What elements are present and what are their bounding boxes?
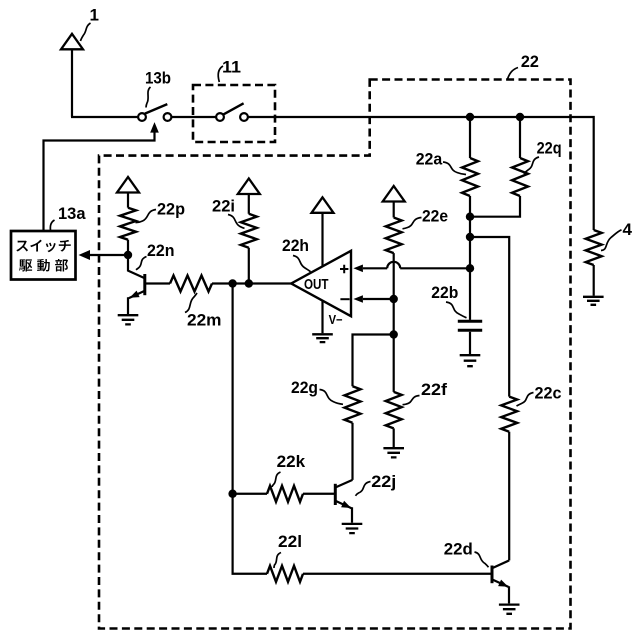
- svg-text:V−: V−: [329, 313, 343, 327]
- arrow up at switch 13b: [150, 122, 159, 133]
- wire op-amp V- to ground: [321, 301, 323, 334]
- resistor 22f: [386, 392, 402, 429]
- wire resistor 22k to 22j base: [303, 493, 335, 495]
- resistor 22q: [512, 158, 528, 196]
- switch 11 blade: [223, 103, 243, 114]
- ground below 22j: [342, 524, 363, 533]
- switch 13b blade: [145, 104, 167, 114]
- leader for label 1: [81, 23, 91, 41]
- junction dot node 22e-minus: [390, 295, 398, 303]
- svg-text:22a: 22a: [416, 149, 443, 168]
- svg-text:OUT: OUT: [304, 277, 329, 293]
- junction dot node VDD-22q: [516, 113, 524, 121]
- svg-text:22p: 22p: [157, 200, 185, 219]
- leader for label 22i: [228, 215, 245, 229]
- resistor 22l: [267, 566, 303, 582]
- resistor 22k: [267, 486, 303, 502]
- switch 11 right contact: [240, 113, 248, 121]
- switch 13b right contact: [164, 113, 172, 121]
- wire resistor 22q to node: [470, 196, 520, 217]
- svg-text:13b: 13b: [145, 69, 171, 88]
- leader for label 22q: [524, 157, 540, 174]
- wire power to resistor 22i: [248, 194, 250, 214]
- leader for label 22e: [403, 218, 422, 229]
- transistor 22j base bar: [334, 484, 337, 505]
- ground below op-amp V-: [312, 334, 333, 342]
- wire resistor 22f to ground: [393, 428, 395, 447]
- switch block 11 dashed box: [193, 85, 275, 142]
- ground below resistor 4: [583, 297, 604, 305]
- wire capacitor 22b to ground: [469, 332, 471, 354]
- ground below 22f: [383, 448, 404, 457]
- wire node to 22c line: [470, 237, 509, 397]
- resistor 22p: [120, 208, 136, 240]
- svg-text:22n: 22n: [147, 241, 175, 260]
- wire node to resistor 22k: [233, 493, 267, 495]
- transistor 22n base bar: [143, 274, 146, 295]
- transistor 22j emitter arrow: [341, 501, 351, 508]
- wire main to resistor 22q: [519, 117, 521, 158]
- wire main to resistor 22a: [469, 117, 471, 158]
- leader for label 22n: [136, 257, 147, 270]
- block 22 dashed outline: [99, 80, 571, 629]
- svg-text:22q: 22q: [537, 138, 562, 157]
- leader for label 22h: [293, 256, 311, 272]
- transistor 22d emitter: [492, 579, 509, 603]
- leader for label 22g: [320, 390, 344, 405]
- svg-text:22h: 22h: [282, 236, 309, 255]
- switch 11 left contact: [216, 113, 224, 121]
- resistor 22i: [241, 214, 257, 248]
- wire main line to resistor 4: [248, 117, 594, 230]
- transistor 22n base lead: [145, 282, 170, 284]
- resistor 22c: [501, 397, 517, 432]
- svg-text:22i: 22i: [212, 197, 235, 216]
- op-amp 22h minus input marker: [340, 298, 349, 300]
- switch driver text line1 (suicchi): [16, 240, 70, 253]
- wire resistor 22c to transistor 22d: [508, 432, 510, 561]
- wire node to capacitor 22b: [469, 268, 471, 320]
- wire plus input hop over 22e: [387, 262, 400, 268]
- svg-text:22c: 22c: [535, 384, 562, 403]
- wire main line to switch 13b: [71, 116, 138, 118]
- transistor 22j emitter: [335, 501, 352, 523]
- switch driver text line2 (kudoubu): [19, 259, 68, 272]
- leader for label 22k: [272, 472, 281, 487]
- op-amp 22h plus input marker: [340, 265, 348, 273]
- power symbol above 22p: [117, 177, 139, 193]
- leader for label 22f: [403, 396, 420, 405]
- svg-text:4: 4: [623, 220, 633, 239]
- svg-text:11: 11: [222, 58, 241, 77]
- svg-text:22j: 22j: [371, 472, 396, 491]
- transistor 22n emitter: [128, 291, 145, 315]
- wire resistor 22i to output line: [248, 248, 250, 284]
- leader for label 4: [601, 230, 622, 251]
- arrow into plus input: [353, 265, 363, 273]
- capacitor 22b plates: [458, 321, 482, 330]
- transistor 22j collector: [335, 480, 352, 488]
- junction dot node 22a-plus: [466, 264, 474, 272]
- wire 22m to op-amp output: [212, 282, 291, 284]
- wire resistor 22l to 22d base: [303, 573, 492, 575]
- wire resistor 22g to transistor 22j: [351, 423, 353, 480]
- op-amp 22h body: [291, 251, 351, 316]
- transistor 22n collector: [128, 255, 145, 278]
- wire resistor 22e down through hop: [393, 253, 395, 334]
- svg-text:22k: 22k: [277, 452, 306, 471]
- wire antenna 1 stem: [71, 49, 73, 117]
- leader for label 22j: [356, 482, 371, 496]
- junction dot node out-22i: [245, 279, 253, 287]
- svg-text:22e: 22e: [422, 207, 448, 226]
- power symbol above 22i: [238, 179, 260, 195]
- resistor 22g: [345, 386, 361, 423]
- svg-text:22g: 22g: [291, 378, 318, 397]
- junction dot node VDD-22a: [466, 113, 474, 121]
- svg-text:22b: 22b: [431, 283, 458, 302]
- resistor 22m: [170, 276, 212, 292]
- antenna terminal 1: [61, 34, 83, 50]
- arrow into 13a box: [79, 250, 91, 260]
- wire node to resistor 22f: [393, 335, 395, 392]
- leader for label 22p: [136, 210, 157, 223]
- leader for label 11: [218, 66, 223, 82]
- power symbol above 22e: [383, 186, 405, 202]
- switch 13b left contact: [138, 113, 146, 121]
- wire power to resistor 22e: [393, 202, 395, 218]
- junction dot node 22a-22q: [466, 213, 474, 221]
- wire node to resistor 22g: [353, 335, 394, 387]
- svg-text:22f: 22f: [421, 380, 447, 399]
- junction dot node branch-22k: [228, 490, 236, 498]
- junction dot node 22a-22c: [466, 233, 474, 241]
- junction dot node out-branch: [228, 279, 236, 287]
- wire power to resistor 22p: [127, 193, 129, 208]
- svg-text:13a: 13a: [58, 204, 86, 223]
- junction dot node 22p-22n: [124, 251, 132, 259]
- leader for label 22c: [517, 393, 534, 407]
- transistor 22n emitter arrow: [130, 291, 140, 298]
- wire resistor 4 to ground: [593, 265, 595, 296]
- leader for label 13b: [146, 87, 151, 108]
- leader for label 22a: [443, 162, 466, 175]
- wire switch 13b to switch 11: [172, 116, 216, 118]
- transistor 22d collector: [492, 560, 509, 568]
- wire V+ supply to op-amp: [321, 213, 323, 266]
- svg-text:22m: 22m: [187, 310, 222, 329]
- arrow into minus input: [353, 295, 363, 303]
- ground below 22b: [460, 355, 481, 366]
- wire minus input line: [363, 298, 394, 300]
- leader for label 22m: [185, 293, 197, 313]
- leader for label 13a: [50, 220, 54, 231]
- leader for label 22d: [475, 552, 489, 567]
- transistor 22d emitter arrow: [498, 580, 508, 587]
- wire node 22n-collector to 13a box: [89, 254, 129, 256]
- ground below 22n: [118, 315, 139, 324]
- transistor 22d base bar: [491, 566, 494, 584]
- svg-text:22: 22: [521, 52, 539, 71]
- ground below 22d: [499, 605, 520, 614]
- svg-text:1: 1: [90, 6, 99, 25]
- junction dot node 22e-22f-22g: [390, 330, 398, 338]
- leader for label 22: [508, 68, 519, 80]
- leader for label 22b: [446, 302, 467, 318]
- wire branch node down and to 22l: [233, 284, 267, 574]
- svg-text:22d: 22d: [444, 539, 473, 558]
- wire plus input line: [363, 267, 470, 269]
- resistor 22a: [462, 158, 478, 196]
- switch driver box 13a: [11, 231, 76, 280]
- resistor 22e: [386, 218, 402, 254]
- svg-text:22l: 22l: [278, 532, 302, 551]
- wire resistor 22a down: [469, 196, 471, 268]
- wire 13a control to switch 13b: [44, 131, 155, 231]
- power symbol above op-amp V+: [312, 197, 334, 213]
- resistor 4: [586, 230, 602, 265]
- leader for label 22l: [274, 553, 281, 569]
- wire resistor 22p to node: [127, 240, 129, 255]
